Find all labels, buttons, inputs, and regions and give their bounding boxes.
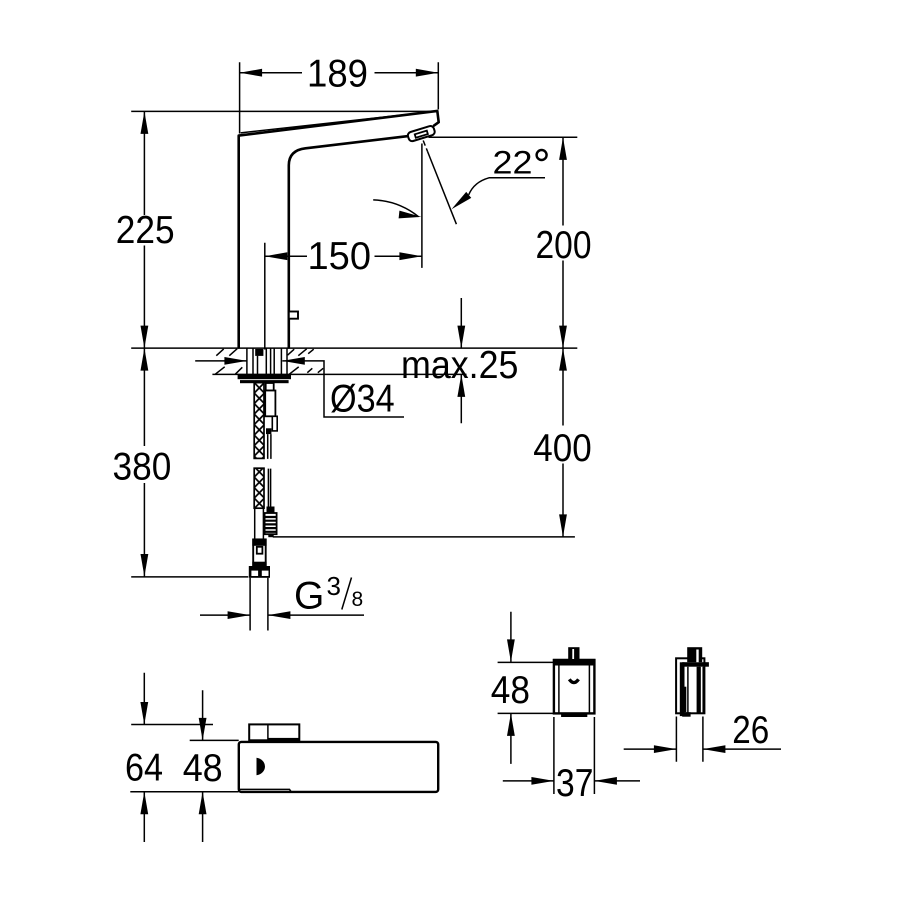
top reference line at spout height <box>131 110 436 112</box>
hose connector hole <box>257 547 263 554</box>
svg-text:37: 37 <box>556 762 593 805</box>
hose plain tube below braid <box>255 508 264 539</box>
hose connector block <box>253 539 266 565</box>
dimension max.25 <box>401 298 519 423</box>
22 degree stream line (dashed start) <box>423 141 427 152</box>
dimension 380 <box>113 348 172 576</box>
control box front LED slot <box>569 679 578 682</box>
control box side column notch <box>685 687 687 713</box>
svg-text:48: 48 <box>491 669 530 712</box>
braided hose lower segment <box>254 468 264 508</box>
control box front body <box>554 660 595 713</box>
control box side inner lines <box>688 667 703 714</box>
cable plug stripes <box>265 517 276 532</box>
faucet body outline (side view) <box>239 111 439 348</box>
G3/8 pipe <box>250 578 268 631</box>
svg-text:64: 64 <box>125 746 163 789</box>
dimension 200 <box>536 137 592 348</box>
hose end nut <box>249 566 270 578</box>
dimension 150 <box>265 144 422 350</box>
sensor cable lower run <box>268 469 270 507</box>
control box side top cap <box>682 662 709 667</box>
svg-text:G: G <box>294 575 324 618</box>
svg-text:max.25: max.25 <box>401 344 519 387</box>
control box front pin slit <box>572 649 574 659</box>
dimension 64 <box>125 673 213 842</box>
svg-text:8: 8 <box>352 588 364 611</box>
control box side dark left column <box>680 662 685 716</box>
sensor cable dark block <box>266 428 271 434</box>
svg-text:380: 380 <box>113 445 172 488</box>
shank through deck (threaded body cross-section) <box>246 348 248 374</box>
hose end reference line (400 bottom) <box>273 536 575 538</box>
svg-text:48: 48 <box>183 747 223 790</box>
sensor cable box C <box>272 416 277 431</box>
dimension 37 <box>503 717 640 805</box>
svg-text:200: 200 <box>536 224 592 267</box>
svg-text:189: 189 <box>307 53 368 96</box>
braided hose upper segment <box>254 383 264 459</box>
dimension 225 <box>116 111 175 348</box>
sensor cable box B <box>265 391 275 417</box>
front view top box <box>249 724 299 740</box>
sensor cable upper run <box>268 434 271 459</box>
escutcheon flange upper bar <box>238 374 291 379</box>
aerator level reference line <box>429 136 578 138</box>
control box front top pin <box>568 647 579 659</box>
control box side body <box>676 658 704 713</box>
svg-text:Ø34: Ø34 <box>330 378 395 421</box>
label 22 degrees leader underline and curve with arrow <box>449 178 545 212</box>
cable plug neck <box>267 507 275 514</box>
cable plug body <box>265 513 277 534</box>
380 bottom reference line <box>131 576 248 578</box>
dimension 48 (control box) <box>491 612 556 764</box>
faucet spout underside and inner edge <box>289 136 409 347</box>
angle arc left with arrow <box>373 200 422 221</box>
dimension 189 <box>240 53 439 134</box>
faucet top chamfer second edge <box>241 111 437 133</box>
dimension diameter 34 leader <box>195 357 404 421</box>
control box side top pin <box>687 647 702 662</box>
aerator face inner rect <box>415 131 428 138</box>
svg-text:225: 225 <box>116 209 175 252</box>
deck top line <box>131 347 577 349</box>
control box side pin slit <box>696 650 698 663</box>
dimension 400 <box>533 348 591 537</box>
svg-text:400: 400 <box>533 427 591 470</box>
front view top box divider <box>267 724 269 740</box>
dimension 26 <box>624 709 781 762</box>
front view sensor window <box>257 758 265 775</box>
sensor tab on trunk right edge <box>289 312 298 319</box>
control box side dark strip <box>697 667 700 714</box>
front view trunk base line <box>239 789 291 792</box>
shank cable channel dark block <box>255 349 263 356</box>
front view top box dark bottom bar <box>268 738 299 742</box>
cable plug tip <box>268 534 273 537</box>
svg-text:22: 22 <box>493 145 533 181</box>
deck hatch left patch ticks <box>215 349 242 375</box>
deck bottom line <box>212 373 466 375</box>
sensor cable box A <box>266 383 274 391</box>
control box side bottom foot <box>682 712 690 717</box>
hose connector dark band bottom <box>252 562 266 567</box>
hose connector dark band top <box>252 539 266 546</box>
deck hatch right patch ticks <box>288 349 324 374</box>
dimension G 3/8 <box>200 571 364 619</box>
aerator housing at spout tip <box>407 125 436 142</box>
label 22 degrees <box>493 145 547 181</box>
svg-text:26: 26 <box>732 709 769 752</box>
svg-text:3: 3 <box>327 571 341 601</box>
front view body <box>239 742 438 792</box>
22 degree stream line <box>428 152 457 225</box>
escutcheon flange lower bar <box>240 380 289 383</box>
nut white slot right <box>262 571 269 576</box>
control box front thick top edge <box>553 659 595 666</box>
nut white slot left <box>251 571 258 576</box>
dimension 48 (front view) <box>130 690 238 842</box>
svg-text:150: 150 <box>308 235 372 278</box>
control box front inner side lines <box>559 666 590 714</box>
control box front bottom bar <box>561 713 587 717</box>
